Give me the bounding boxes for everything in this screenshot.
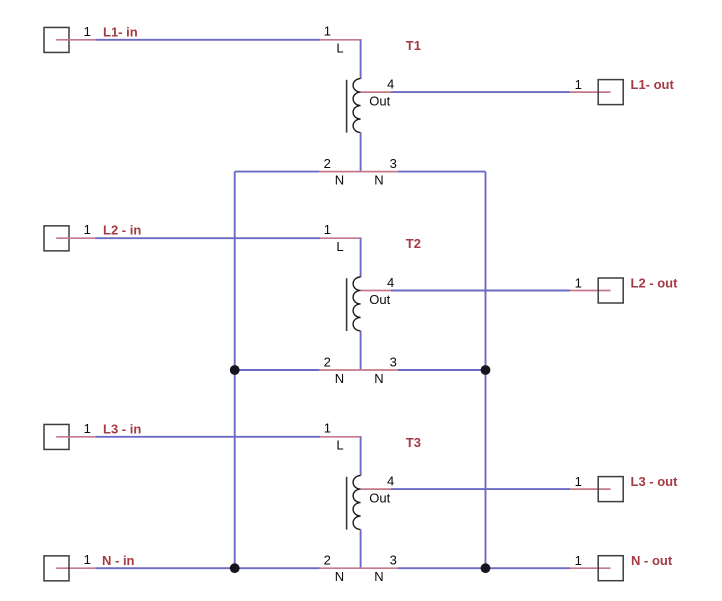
- svg-text:Out: Out: [369, 292, 390, 307]
- svg-text:1: 1: [324, 421, 331, 436]
- svg-text:L: L: [336, 438, 343, 453]
- svg-text:L2 - in: L2 - in: [103, 223, 141, 238]
- svg-text:L2 - out: L2 - out: [631, 275, 679, 290]
- svg-text:1: 1: [84, 552, 91, 567]
- svg-text:L: L: [336, 41, 343, 56]
- svg-text:N: N: [335, 173, 344, 188]
- svg-text:1: 1: [84, 421, 91, 436]
- svg-text:1: 1: [84, 24, 91, 39]
- svg-text:3: 3: [390, 156, 397, 171]
- svg-text:2: 2: [324, 156, 331, 171]
- svg-text:L: L: [336, 239, 343, 254]
- svg-text:1: 1: [575, 474, 582, 489]
- svg-text:L1- out: L1- out: [631, 77, 675, 92]
- svg-text:Out: Out: [369, 94, 390, 109]
- svg-text:N: N: [335, 569, 344, 584]
- svg-text:4: 4: [387, 77, 394, 92]
- svg-text:Out: Out: [369, 491, 390, 506]
- svg-text:L1- in: L1- in: [103, 24, 138, 39]
- svg-text:T3: T3: [406, 435, 421, 450]
- svg-text:2: 2: [324, 355, 331, 370]
- svg-text:L3 - in: L3 - in: [103, 421, 141, 436]
- svg-text:3: 3: [390, 553, 397, 568]
- svg-text:4: 4: [387, 474, 394, 489]
- svg-text:4: 4: [387, 275, 394, 290]
- svg-text:N: N: [374, 371, 383, 386]
- svg-text:1: 1: [575, 77, 582, 92]
- svg-text:N - out: N - out: [631, 553, 673, 568]
- svg-text:1: 1: [575, 275, 582, 290]
- svg-text:T2: T2: [406, 236, 421, 251]
- svg-text:1: 1: [84, 222, 91, 237]
- svg-text:N: N: [335, 371, 344, 386]
- svg-text:N: N: [374, 569, 383, 584]
- svg-text:N: N: [374, 173, 383, 188]
- svg-text:2: 2: [324, 553, 331, 568]
- svg-text:1: 1: [324, 222, 331, 237]
- svg-text:3: 3: [390, 355, 397, 370]
- svg-text:1: 1: [324, 24, 331, 39]
- svg-text:L3 - out: L3 - out: [631, 474, 679, 489]
- svg-text:N - in: N - in: [102, 553, 135, 568]
- svg-text:T1: T1: [406, 38, 421, 53]
- svg-text:1: 1: [575, 553, 582, 568]
